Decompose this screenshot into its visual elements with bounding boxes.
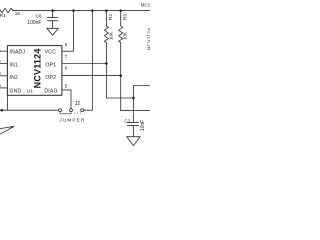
- svg-text:4: 4: [0, 83, 1, 88]
- ground C3: [127, 137, 140, 146]
- svg-text:10K: 10K: [123, 31, 128, 40]
- pin 2 stub: [0, 63, 7, 65]
- node jumper riser: [91, 9, 94, 12]
- svg-text:NCV1124: NCV1124: [32, 48, 42, 88]
- wire R2 net to output: [106, 64, 133, 99]
- svg-text:INADJ: INADJ: [10, 49, 26, 55]
- pin 1 stub: [0, 50, 7, 52]
- svg-text:6: 6: [65, 65, 68, 70]
- capacitor C6: [48, 11, 58, 29]
- wire OP1 pin 7: [62, 63, 107, 65]
- node VCC riser: [72, 9, 75, 12]
- svg-text:U1: U1: [27, 88, 33, 93]
- wire GND run: [0, 109, 59, 111]
- svg-text:OP1: OP1: [45, 63, 56, 69]
- node C6/rail: [51, 9, 54, 12]
- svg-text:1: 1: [0, 47, 1, 52]
- svg-text:JUMPER: JUMPER: [59, 118, 85, 124]
- node output/C3: [132, 97, 135, 100]
- wire DIAG pin 5 to jumper pin 2: [62, 90, 71, 109]
- junction dots: [1, 9, 135, 111]
- svg-text:R1: R1: [0, 13, 6, 18]
- svg-text:MC33199B: MC33199B: [141, 3, 150, 8]
- wire OP2 to edge: [121, 76, 150, 111]
- wire IC gnd down: [6, 95, 8, 110]
- svg-text:1K: 1K: [15, 11, 22, 16]
- svg-text:R2: R2: [108, 14, 113, 20]
- pin 4 stub: [0, 87, 7, 89]
- svg-text:IN1: IN1: [10, 63, 18, 69]
- svg-text:NCV1124: NCV1124: [147, 28, 151, 51]
- ground arrow bottom left: [0, 126, 14, 134]
- node R2/rail: [105, 9, 108, 12]
- resistor R1: [0, 8, 13, 13]
- svg-text:C3: C3: [124, 118, 130, 123]
- wire VCC to pin 8: [62, 11, 74, 52]
- svg-text:VCC: VCC: [45, 49, 56, 55]
- svg-text:8: 8: [65, 42, 68, 47]
- node R3/rail: [119, 9, 122, 12]
- ground C6: [47, 28, 58, 35]
- jumper shunt bracket: [60, 112, 71, 114]
- svg-text:IN2: IN2: [10, 75, 18, 81]
- resistor R2: [104, 11, 108, 64]
- svg-text:2: 2: [0, 59, 1, 64]
- jumper J2 pin circles: [59, 109, 84, 112]
- wire VCC rail: [13, 10, 150, 12]
- svg-text:7: 7: [65, 54, 68, 59]
- resistor R3: [119, 11, 123, 76]
- svg-text:10K: 10K: [108, 31, 113, 40]
- pin 3 stub: [0, 75, 7, 77]
- capacitor C3: [127, 98, 138, 137]
- wire OP2 pin 6: [62, 75, 121, 77]
- svg-text:J2: J2: [75, 101, 81, 107]
- node OP2/R3: [119, 74, 122, 77]
- node GND left: [1, 109, 4, 112]
- svg-text:OP2: OP2: [45, 75, 56, 81]
- wire output exit right: [133, 86, 150, 99]
- svg-text:DIAG: DIAG: [44, 89, 57, 95]
- wire rail to jumper pin 3: [84, 11, 93, 111]
- svg-text:C6: C6: [36, 14, 42, 19]
- svg-text:10nF: 10nF: [140, 120, 146, 131]
- svg-text:R3: R3: [122, 14, 127, 20]
- node OP1/R2: [105, 62, 108, 65]
- svg-text:GND: GND: [10, 89, 22, 95]
- op-amp U1 box NCV1124: [7, 46, 62, 96]
- svg-text:100nF: 100nF: [27, 20, 41, 26]
- svg-text:5: 5: [65, 84, 68, 89]
- svg-text:3: 3: [0, 71, 1, 76]
